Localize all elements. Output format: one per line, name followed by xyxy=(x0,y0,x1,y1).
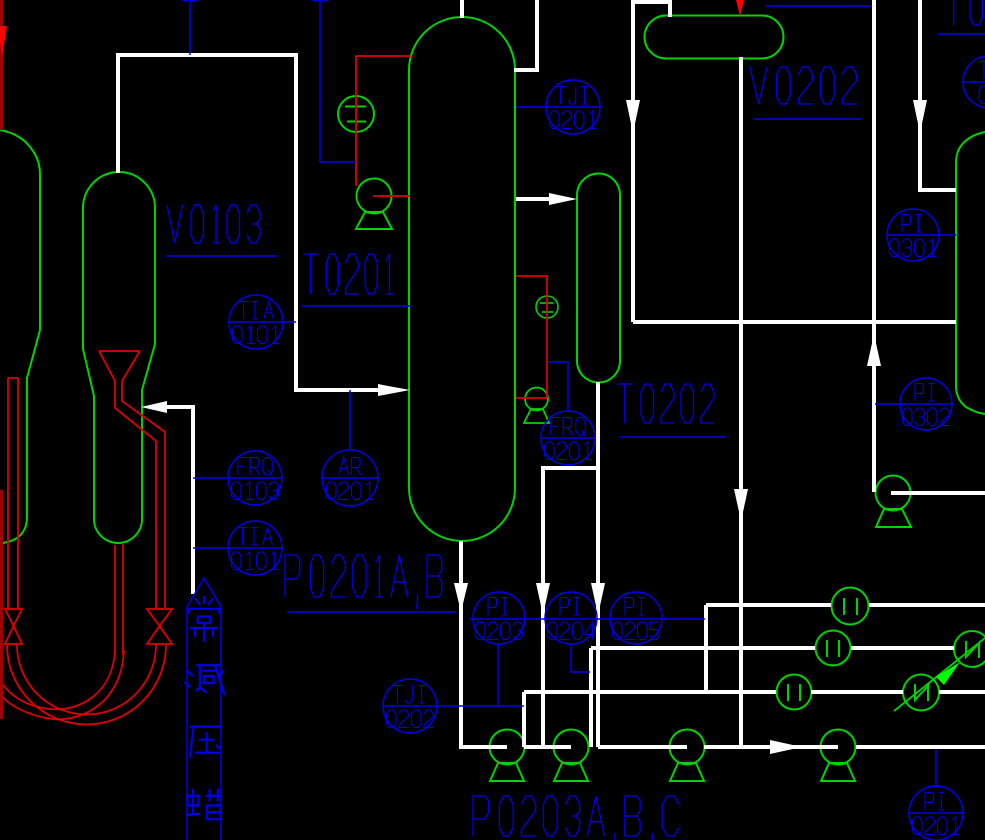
underline T03 xyxy=(938,33,985,35)
arrow up x874 xyxy=(867,334,881,366)
arrow into T0202 xyxy=(549,193,577,205)
text PI0203 bubble xyxy=(488,598,497,616)
instrument top circle 2 xyxy=(293,0,347,1)
wire box verticals xyxy=(524,605,706,747)
pump P0301 circle xyxy=(876,476,912,528)
bubble TJI0201 xyxy=(546,80,600,134)
arrow left into V0103 xyxy=(141,401,167,413)
inline instrument circle row2 xyxy=(777,675,812,710)
inline instrument circle row0 xyxy=(832,588,869,625)
char jian xyxy=(185,665,225,695)
red line T0201 side loop xyxy=(516,276,547,398)
pump P-top circle xyxy=(356,179,392,230)
vessel V0102 (left partial) shell xyxy=(0,130,40,543)
inline instrument circle row1 xyxy=(816,631,851,666)
wire y322 header xyxy=(633,320,956,324)
arrow down x633 xyxy=(626,100,640,133)
arrow down x543 xyxy=(536,583,550,615)
bubble TIA0101 upper xyxy=(229,295,283,349)
underline P0201A,B xyxy=(287,611,455,613)
arrow right pump row xyxy=(770,740,802,754)
arrow down x741 xyxy=(734,489,748,521)
vessel V0103 shell xyxy=(83,172,155,543)
red valve V2 xyxy=(147,609,172,644)
wire T0201 bottom xyxy=(461,541,507,747)
wire branch x543 xyxy=(543,468,598,747)
red U-bend V0103 to left edge xyxy=(0,650,124,719)
label P0201A,B xyxy=(285,555,300,597)
pump P0204 xyxy=(821,730,856,782)
red U-bend valve1 to valve2 xyxy=(7,645,166,724)
bubble TI top-right partial xyxy=(963,56,985,108)
drum V0202 shell xyxy=(645,16,784,59)
wire H1 row xyxy=(591,646,954,650)
red pipes left vessel xyxy=(8,378,18,609)
red funnel inside V0103 xyxy=(99,351,165,609)
red pipes V0103 bottom xyxy=(115,544,123,655)
wire overhead V0202 xyxy=(633,2,670,322)
red arrow into V0202 xyxy=(736,0,744,16)
wire H2 row xyxy=(524,690,985,694)
red feed line top-left xyxy=(0,0,3,130)
wire pump row to P0204 xyxy=(741,745,985,749)
underline T0201 xyxy=(302,305,412,307)
arrow down x598 xyxy=(591,583,605,615)
bubble PI0302 xyxy=(900,378,952,430)
bubble FRQ0201 xyxy=(541,411,595,465)
wire V0103 top to T0201 xyxy=(118,55,382,390)
pump P0203A xyxy=(490,730,525,782)
red line left edge lower xyxy=(0,490,3,719)
text FRQ0103 bubble xyxy=(238,458,248,476)
wire T0201 apex tick xyxy=(460,0,464,18)
red valve V1 xyxy=(5,609,22,644)
text TJI0202 bubble xyxy=(393,686,403,704)
banner outline xyxy=(187,578,221,840)
wire x874 xyxy=(872,0,876,492)
arrow into T0201 xyxy=(378,384,410,396)
char ya xyxy=(190,727,221,758)
pump small circle xyxy=(524,388,549,424)
label V0103 xyxy=(167,205,183,243)
wire H0 row xyxy=(706,603,985,607)
column T0202 shell xyxy=(577,173,620,382)
line above V0202 xyxy=(765,5,871,7)
bubble PI0201 xyxy=(909,786,963,840)
text PI0201 bubble xyxy=(925,793,934,811)
underline V0103 xyxy=(165,255,277,257)
pump P0203C xyxy=(670,730,705,782)
sampler diagonal line xyxy=(894,638,985,711)
wire top nozzle T0201 right xyxy=(514,0,537,70)
wire V0202 bottom long xyxy=(739,57,743,747)
label T03 top right xyxy=(946,0,962,25)
char chang xyxy=(189,596,220,642)
pump P0203B xyxy=(554,730,589,782)
char la xyxy=(186,789,222,819)
text AR0201 bubble xyxy=(339,458,349,476)
red arrow top-left xyxy=(0,26,7,57)
sampler circle upper xyxy=(954,631,985,667)
column T0201 shell xyxy=(409,17,515,541)
wire arrow line into V0103 xyxy=(165,407,193,594)
text TJI0201 bubble xyxy=(556,87,566,105)
underline V0202 xyxy=(753,118,861,120)
underline T0202 xyxy=(620,436,726,438)
text TIA0101 bubble xyxy=(239,302,249,320)
exchanger small circle xyxy=(536,296,558,318)
label T0202 xyxy=(617,384,633,423)
column T0301 (right partial) shell xyxy=(956,132,985,414)
wire pump P0301 discharge xyxy=(891,491,985,495)
text FRQ0201 bubble xyxy=(551,418,561,436)
exchanger E0201 circle xyxy=(338,96,374,132)
wire arrow line into T0202 xyxy=(516,197,550,201)
label P0203A,B,C xyxy=(473,796,488,836)
text PI0301 bubble xyxy=(902,215,911,233)
bubbles PI row line xyxy=(469,618,705,620)
arrow down x461 xyxy=(454,583,468,612)
bubble AR0201 xyxy=(322,450,378,506)
label T0201 xyxy=(303,254,318,294)
text PI0204 bubble xyxy=(560,598,569,616)
wire x920 elbow xyxy=(920,0,956,190)
text TIA0101 bubble xyxy=(238,528,248,546)
bubble FRQ0103 xyxy=(228,451,282,505)
bubble TJI0202 xyxy=(383,679,437,733)
wire T0202 bottom xyxy=(596,382,600,747)
instrument top circle 1 xyxy=(163,0,217,1)
text PI0205 bubble xyxy=(625,598,634,616)
wire pump row suctions xyxy=(524,648,741,747)
sampler circle lower xyxy=(903,675,939,711)
label V0202 xyxy=(750,67,767,104)
bubble PI0301 xyxy=(887,209,939,261)
arrow down x920 xyxy=(913,100,927,133)
text TI bubble top right partial xyxy=(979,62,985,80)
bubble TIA0101 lower xyxy=(228,521,282,575)
red reflux loop at T0201 xyxy=(356,56,411,196)
text PI0302 bubble xyxy=(915,384,924,402)
green arrow on diagonal xyxy=(936,662,960,685)
